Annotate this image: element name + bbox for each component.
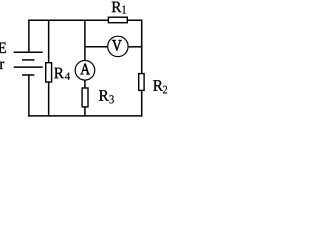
label R1 (R) [112, 2, 122, 12]
wire ammeter to R3 lead [84, 80, 86, 88]
wire right side lower segment [141, 91, 143, 117]
label R4 (R) [54, 68, 64, 78]
voltmeter letter V [112, 40, 121, 51]
resistor R1 [108, 17, 127, 23]
wire right side upper segment [141, 20, 143, 74]
wire top bus [28, 19, 142, 21]
resistor R4 [46, 63, 52, 82]
ammeter A circle [75, 61, 95, 81]
wire R3 lower lead [84, 107, 86, 117]
ammeter letter A [80, 64, 90, 75]
wire left side lower segment [28, 75, 30, 117]
label R4 subscript 4 [65, 73, 70, 80]
label r [0, 61, 4, 69]
voltmeter V circle [108, 36, 128, 56]
wire left side upper segment [28, 20, 30, 53]
battery E,r [14, 52, 43, 75]
wire ammeter branch upper [84, 20, 86, 61]
wire bottom bus [28, 115, 142, 117]
label R3 (R) [99, 90, 109, 100]
wire R4 branch lower [48, 82, 50, 117]
wire voltmeter left lead [85, 46, 108, 48]
wire R4 branch upper [48, 20, 50, 63]
resistor R2 [139, 74, 144, 91]
label R1 subscript 1 [122, 6, 125, 14]
label R2 (R) [153, 80, 163, 90]
resistor R3 [82, 88, 88, 107]
label R3 subscript 3 [109, 95, 113, 103]
wire voltmeter right lead [128, 46, 142, 48]
label E [0, 43, 6, 53]
label R2 subscript 2 [163, 86, 167, 94]
